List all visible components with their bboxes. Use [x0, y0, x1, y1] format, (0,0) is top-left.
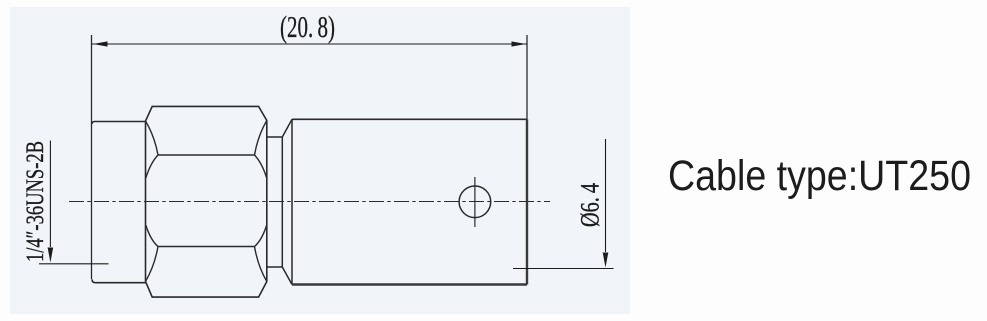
svg-text:Cable type:UT250: Cable type:UT250 [668, 153, 971, 200]
dia 6.4 dimension line [605, 139, 607, 252]
thread callout leader line [49, 141, 51, 248]
arrowhead dia 6.4 [603, 253, 609, 268]
hex nut silhouette [146, 106, 267, 297]
body cylinder outline [292, 118, 527, 120]
centerline (dash-dot axis) [69, 201, 550, 203]
wire: left extension line + thread barrel left edge [91, 35, 93, 279]
coupling ring between hex and body [267, 137, 283, 267]
body chamfer tangent edge [291, 119, 293, 284]
arrowhead left of (20.8) [93, 41, 108, 46]
arrowhead thread leader [48, 248, 54, 263]
dimension line (20.8) [92, 43, 527, 45]
hex face division line (lower) [158, 246, 255, 248]
svg-text:Ø6. 4: Ø6. 4 [576, 183, 605, 227]
crimp hole circle [459, 186, 491, 218]
body left chamfer cone [282, 119, 292, 284]
body right edge + extension line for (20.8) [526, 35, 528, 119]
leader horizontal segment [39, 263, 109, 265]
hole vertical center mark [474, 177, 476, 227]
hex chamfer arcs left [146, 121, 159, 282]
arrowhead right of (20.8) [512, 41, 527, 46]
hex face division line (upper) [158, 154, 255, 156]
svg-text:1/4″-36UNS-2B: 1/4″-36UNS-2B [22, 141, 49, 262]
extension line bottom of dia 6.4 [513, 268, 614, 270]
hex chamfer arcs right [255, 121, 267, 282]
thread barrel outline [92, 122, 146, 283]
svg-text:(20. 8): (20. 8) [280, 10, 335, 44]
